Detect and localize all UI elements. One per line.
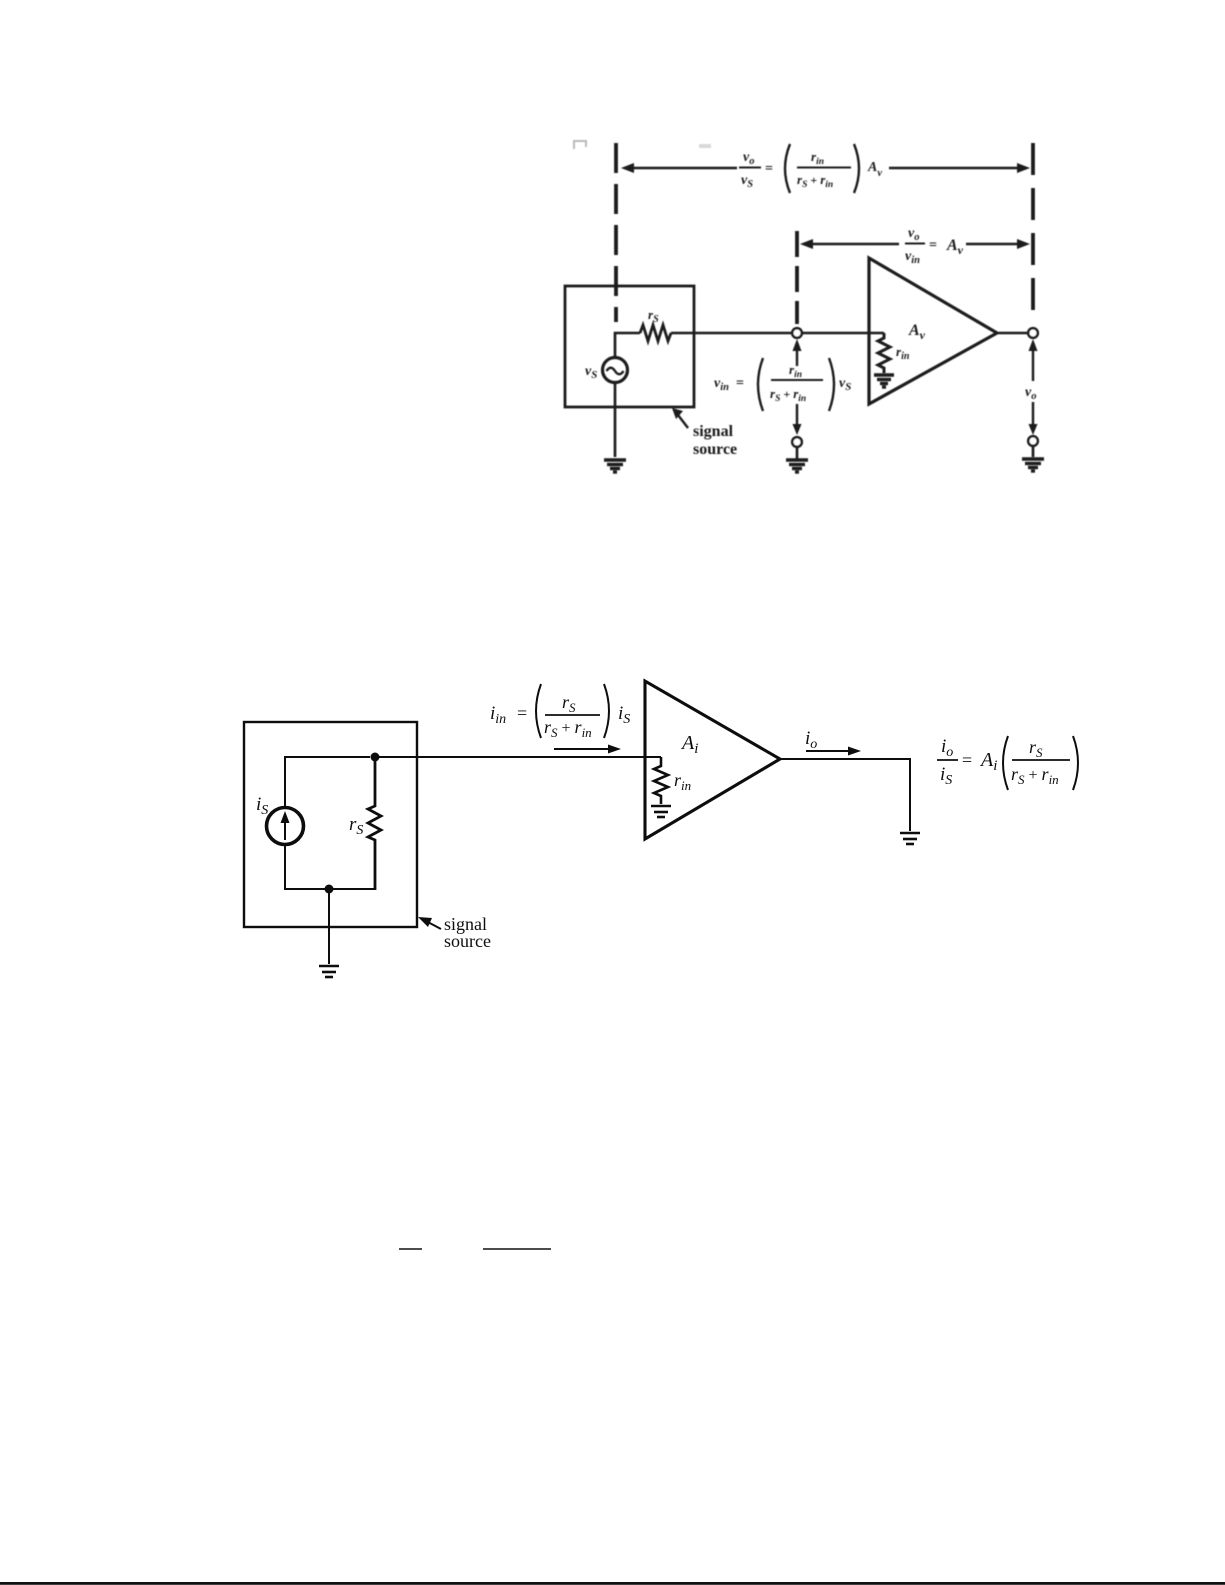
ground (rin) — [874, 375, 894, 387]
resistor rS — [640, 325, 671, 341]
ground (output) — [1022, 459, 1044, 471]
svg-text:rin: rin — [674, 770, 691, 793]
svg-text:rS: rS — [562, 692, 576, 715]
svg-text:rS + rin: rS + rin — [770, 386, 806, 404]
wire: vS to rS bend — [615, 333, 640, 357]
svg-text:vo: vo — [1025, 385, 1036, 402]
signal source box — [244, 722, 417, 927]
resistor rS — [368, 757, 381, 890]
wire: vin arrow down to lower terminal — [796, 404, 798, 429]
svg-text:vS: vS — [585, 364, 597, 381]
formula vo/vS = (rin/(rS+rin))Av — [739, 144, 882, 193]
svg-text:source: source — [444, 931, 491, 951]
svg-text:rin: rin — [811, 149, 824, 167]
svg-text:vo: vo — [743, 150, 754, 167]
source vS — [603, 358, 628, 383]
svg-text:iS: iS — [618, 703, 630, 727]
dashed measurement extension line (middle, at vin node) — [795, 231, 799, 324]
wire: top measurement arrow right segment — [889, 167, 1018, 169]
formula vo/vin = Av — [905, 226, 964, 266]
svg-text:vo: vo — [908, 226, 919, 243]
formula vin = (rin/(rS+rin))vS — [714, 358, 851, 411]
svg-text:=: = — [736, 376, 744, 391]
svg-text:rS: rS — [648, 307, 659, 325]
dashed measurement extension line (right, at vo node) — [1031, 143, 1035, 311]
wire: vo arrow up to output node — [1029, 339, 1038, 351]
scan artifact smudge — [699, 144, 711, 148]
signal source box — [565, 286, 694, 407]
label arrow: signal source — [424, 920, 441, 929]
wire: rS to node — [671, 332, 792, 335]
wire: vS to ground — [614, 383, 617, 457]
wire: bottom loop right — [370, 888, 375, 890]
svg-text:io: io — [805, 728, 817, 752]
arrow iin — [554, 748, 612, 750]
wire: terminal to ground — [796, 447, 799, 459]
svg-text:rS + rin: rS + rin — [797, 172, 833, 190]
svg-text:rS: rS — [1029, 737, 1043, 760]
node: output terminal circle — [1028, 328, 1038, 338]
wire: vo arrow down to lower terminal — [1032, 402, 1034, 428]
junction dot — [371, 753, 380, 762]
svg-text:iin: iin — [490, 703, 506, 727]
svg-text:=: = — [962, 750, 972, 770]
wire: tier2 measurement arrow right segment — [966, 243, 1018, 245]
node: lower input terminal circle — [792, 437, 802, 447]
op-amp Ai triangle — [645, 681, 780, 839]
wire: node to amplifier — [375, 756, 661, 758]
bottom rule — [0, 1582, 1225, 1585]
svg-text:vin: vin — [714, 376, 729, 393]
wire: tier2 measurement arrow left segment — [810, 243, 899, 245]
formula iin = (rS/(rS+rin))iS — [490, 684, 630, 740]
svg-text:signal: signal — [693, 423, 734, 440]
stray fraction bars — [399, 1248, 551, 1250]
svg-text:=: = — [929, 238, 937, 253]
svg-text:rin: rin — [789, 362, 802, 380]
node: lower output terminal circle — [1028, 436, 1038, 446]
svg-text:vS: vS — [839, 376, 851, 393]
ground (rin) — [651, 806, 671, 817]
wire: vin arrow up to input node — [793, 339, 802, 351]
svg-text:rS + rin: rS + rin — [544, 717, 592, 740]
svg-text:vS: vS — [741, 173, 753, 190]
labels / formulas of bottom figure — [256, 684, 1078, 951]
svg-text:rS: rS — [349, 814, 363, 838]
scan artifact top-left — [573, 141, 587, 149]
svg-text:Ai: Ai — [979, 749, 997, 774]
source iS — [267, 808, 304, 845]
wire: iS to bottom — [285, 844, 370, 889]
resistor rin (inside Av) — [878, 333, 890, 373]
svg-text:source: source — [693, 441, 737, 458]
wire: top measurement arrow left segment — [631, 167, 737, 169]
wire: inner loop top — [285, 757, 370, 806]
svg-text:iS: iS — [940, 764, 952, 788]
arrow io — [806, 750, 852, 752]
labels / formulas of top figure — [585, 144, 1036, 458]
op-amp Av triangle — [869, 258, 997, 404]
wire: Ai output — [780, 759, 910, 831]
svg-text:=: = — [517, 703, 527, 723]
ground (vin terminal) — [786, 460, 808, 472]
ground (signal source) — [604, 460, 626, 472]
wire: Av output — [997, 332, 1028, 335]
svg-text:rin: rin — [896, 344, 910, 362]
junction dot bottom — [325, 885, 334, 894]
label arrow: signal source — [678, 415, 688, 428]
node: input node circle — [792, 328, 802, 338]
svg-text:Av: Av — [946, 237, 964, 257]
dashed measurement extension line (left, at vS) — [614, 143, 618, 322]
svg-text:Av: Av — [867, 160, 882, 179]
formula io/iS = Ai(rS/(rS+rin)) — [937, 736, 1078, 790]
resistor rin — [654, 757, 668, 804]
svg-text:Av: Av — [908, 322, 926, 342]
ground (output) — [900, 833, 920, 844]
wire: ground stem — [328, 889, 330, 964]
svg-text:Ai: Ai — [680, 732, 698, 757]
svg-text:=: = — [765, 162, 773, 177]
svg-text:iS: iS — [256, 794, 268, 818]
svg-text:rS + rin: rS + rin — [1011, 764, 1059, 787]
svg-text:vin: vin — [905, 249, 920, 266]
wire: node to amplifier input — [802, 332, 884, 335]
wire: terminal to ground — [1032, 446, 1035, 457]
svg-text:io: io — [941, 736, 953, 760]
ground (signal source) — [319, 966, 339, 977]
